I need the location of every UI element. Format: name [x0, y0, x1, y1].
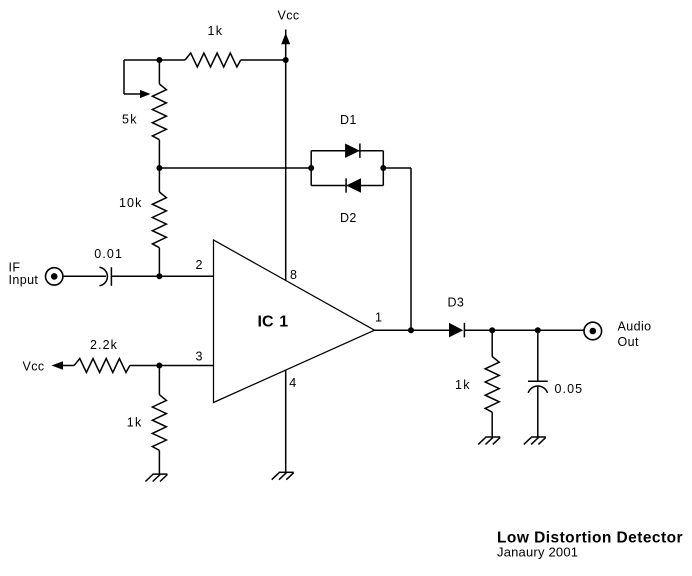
svg-text:3: 3 [196, 350, 203, 364]
svg-text:10k: 10k [119, 196, 142, 210]
svg-text:5k: 5k [122, 113, 138, 127]
svg-text:D2: D2 [340, 211, 357, 225]
svg-text:4: 4 [289, 376, 296, 390]
svg-text:IC: IC [258, 314, 274, 331]
svg-text:Out: Out [618, 335, 639, 349]
svg-text:2: 2 [196, 258, 203, 272]
svg-text:8: 8 [290, 268, 297, 282]
svg-text:1k: 1k [208, 24, 224, 38]
svg-text:1k: 1k [127, 416, 143, 430]
svg-text:Audio: Audio [618, 319, 652, 333]
svg-text:Vcc: Vcc [278, 9, 300, 23]
svg-text:1k: 1k [455, 378, 471, 392]
svg-text:1: 1 [279, 314, 288, 331]
svg-text:0.05: 0.05 [555, 382, 584, 396]
svg-text:Input: Input [9, 273, 39, 287]
svg-text:D3: D3 [448, 296, 465, 310]
svg-text:D1: D1 [340, 113, 357, 127]
svg-text:Janaury 2001: Janaury 2001 [497, 545, 578, 560]
svg-text:Vcc: Vcc [23, 360, 45, 374]
svg-text:2.2k: 2.2k [90, 338, 118, 352]
svg-text:0.01: 0.01 [94, 247, 123, 261]
svg-text:1: 1 [375, 311, 382, 325]
